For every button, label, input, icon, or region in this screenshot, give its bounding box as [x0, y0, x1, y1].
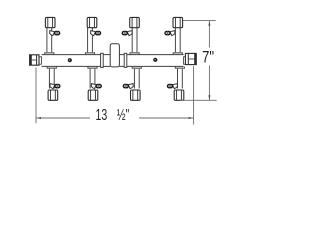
height dimension line lower segment [208, 66, 210, 100]
cap of T7 bottom [131, 90, 141, 100]
cap of T1 top [45, 17, 55, 27]
burner tube T1 top [45, 28, 54, 54]
coupler ring left of inlet [101, 53, 104, 67]
manifold pipe left section [42, 55, 101, 67]
cap of T2 top [87, 17, 97, 27]
burner tube T4 top [173, 28, 182, 54]
left end plug fitting [30, 55, 42, 65]
burner tube T6 bottom [88, 67, 97, 89]
width dimension right extension line [193, 66, 195, 125]
height dimension bottom extension line [180, 99, 217, 101]
height dimension top arrowhead [208, 21, 210, 26]
height dimension line upper segment [208, 21, 210, 48]
orifice valve of T7 bottom (mirrored) [123, 84, 134, 89]
orifice valve of T3 top (mirrored) [122, 31, 133, 36]
width dimension line right segment [139, 117, 193, 119]
center gas inlet block [110, 44, 119, 67]
svg-text:13 ½": 13 ½" [95, 106, 129, 124]
burner tube T7 bottom [132, 67, 141, 89]
cap of T5 bottom [48, 90, 58, 100]
orifice valve of T6 bottom [91, 84, 102, 89]
cap of T8 bottom [174, 90, 184, 100]
orifice valve of T2 top [91, 31, 102, 36]
manifold pipe center stubs [103, 55, 124, 67]
width dimension left extension line [35, 68, 37, 124]
cap of T6 bottom [88, 90, 98, 100]
height dimension top extension line [183, 20, 216, 22]
orifice valve of T5 bottom [50, 84, 61, 89]
manifold pipe right section [127, 55, 184, 67]
orifice valve of T1 top [50, 31, 61, 36]
right end plug fitting [184, 53, 197, 64]
svg-text:7": 7" [202, 48, 214, 67]
width dimension left arrowhead [36, 117, 41, 119]
manifold screw left [68, 58, 72, 62]
burner tube T3 top [130, 28, 139, 54]
width dimension line left segment [36, 117, 90, 119]
orifice valve of T4 top (mirrored) [164, 31, 175, 36]
manifold screw right [153, 58, 157, 62]
burner tube T8 bottom [175, 67, 184, 89]
orifice valve of T8 bottom (mirrored) [167, 84, 178, 89]
cap of T3 top [130, 17, 140, 27]
width dimension right arrowhead [189, 117, 194, 119]
coupler ring right of inlet [124, 53, 127, 67]
cap of T4 top [173, 17, 183, 27]
burner tube T2 top [85, 28, 94, 54]
height dimension bottom arrowhead [208, 95, 210, 100]
burner tube T5 bottom [47, 67, 56, 89]
